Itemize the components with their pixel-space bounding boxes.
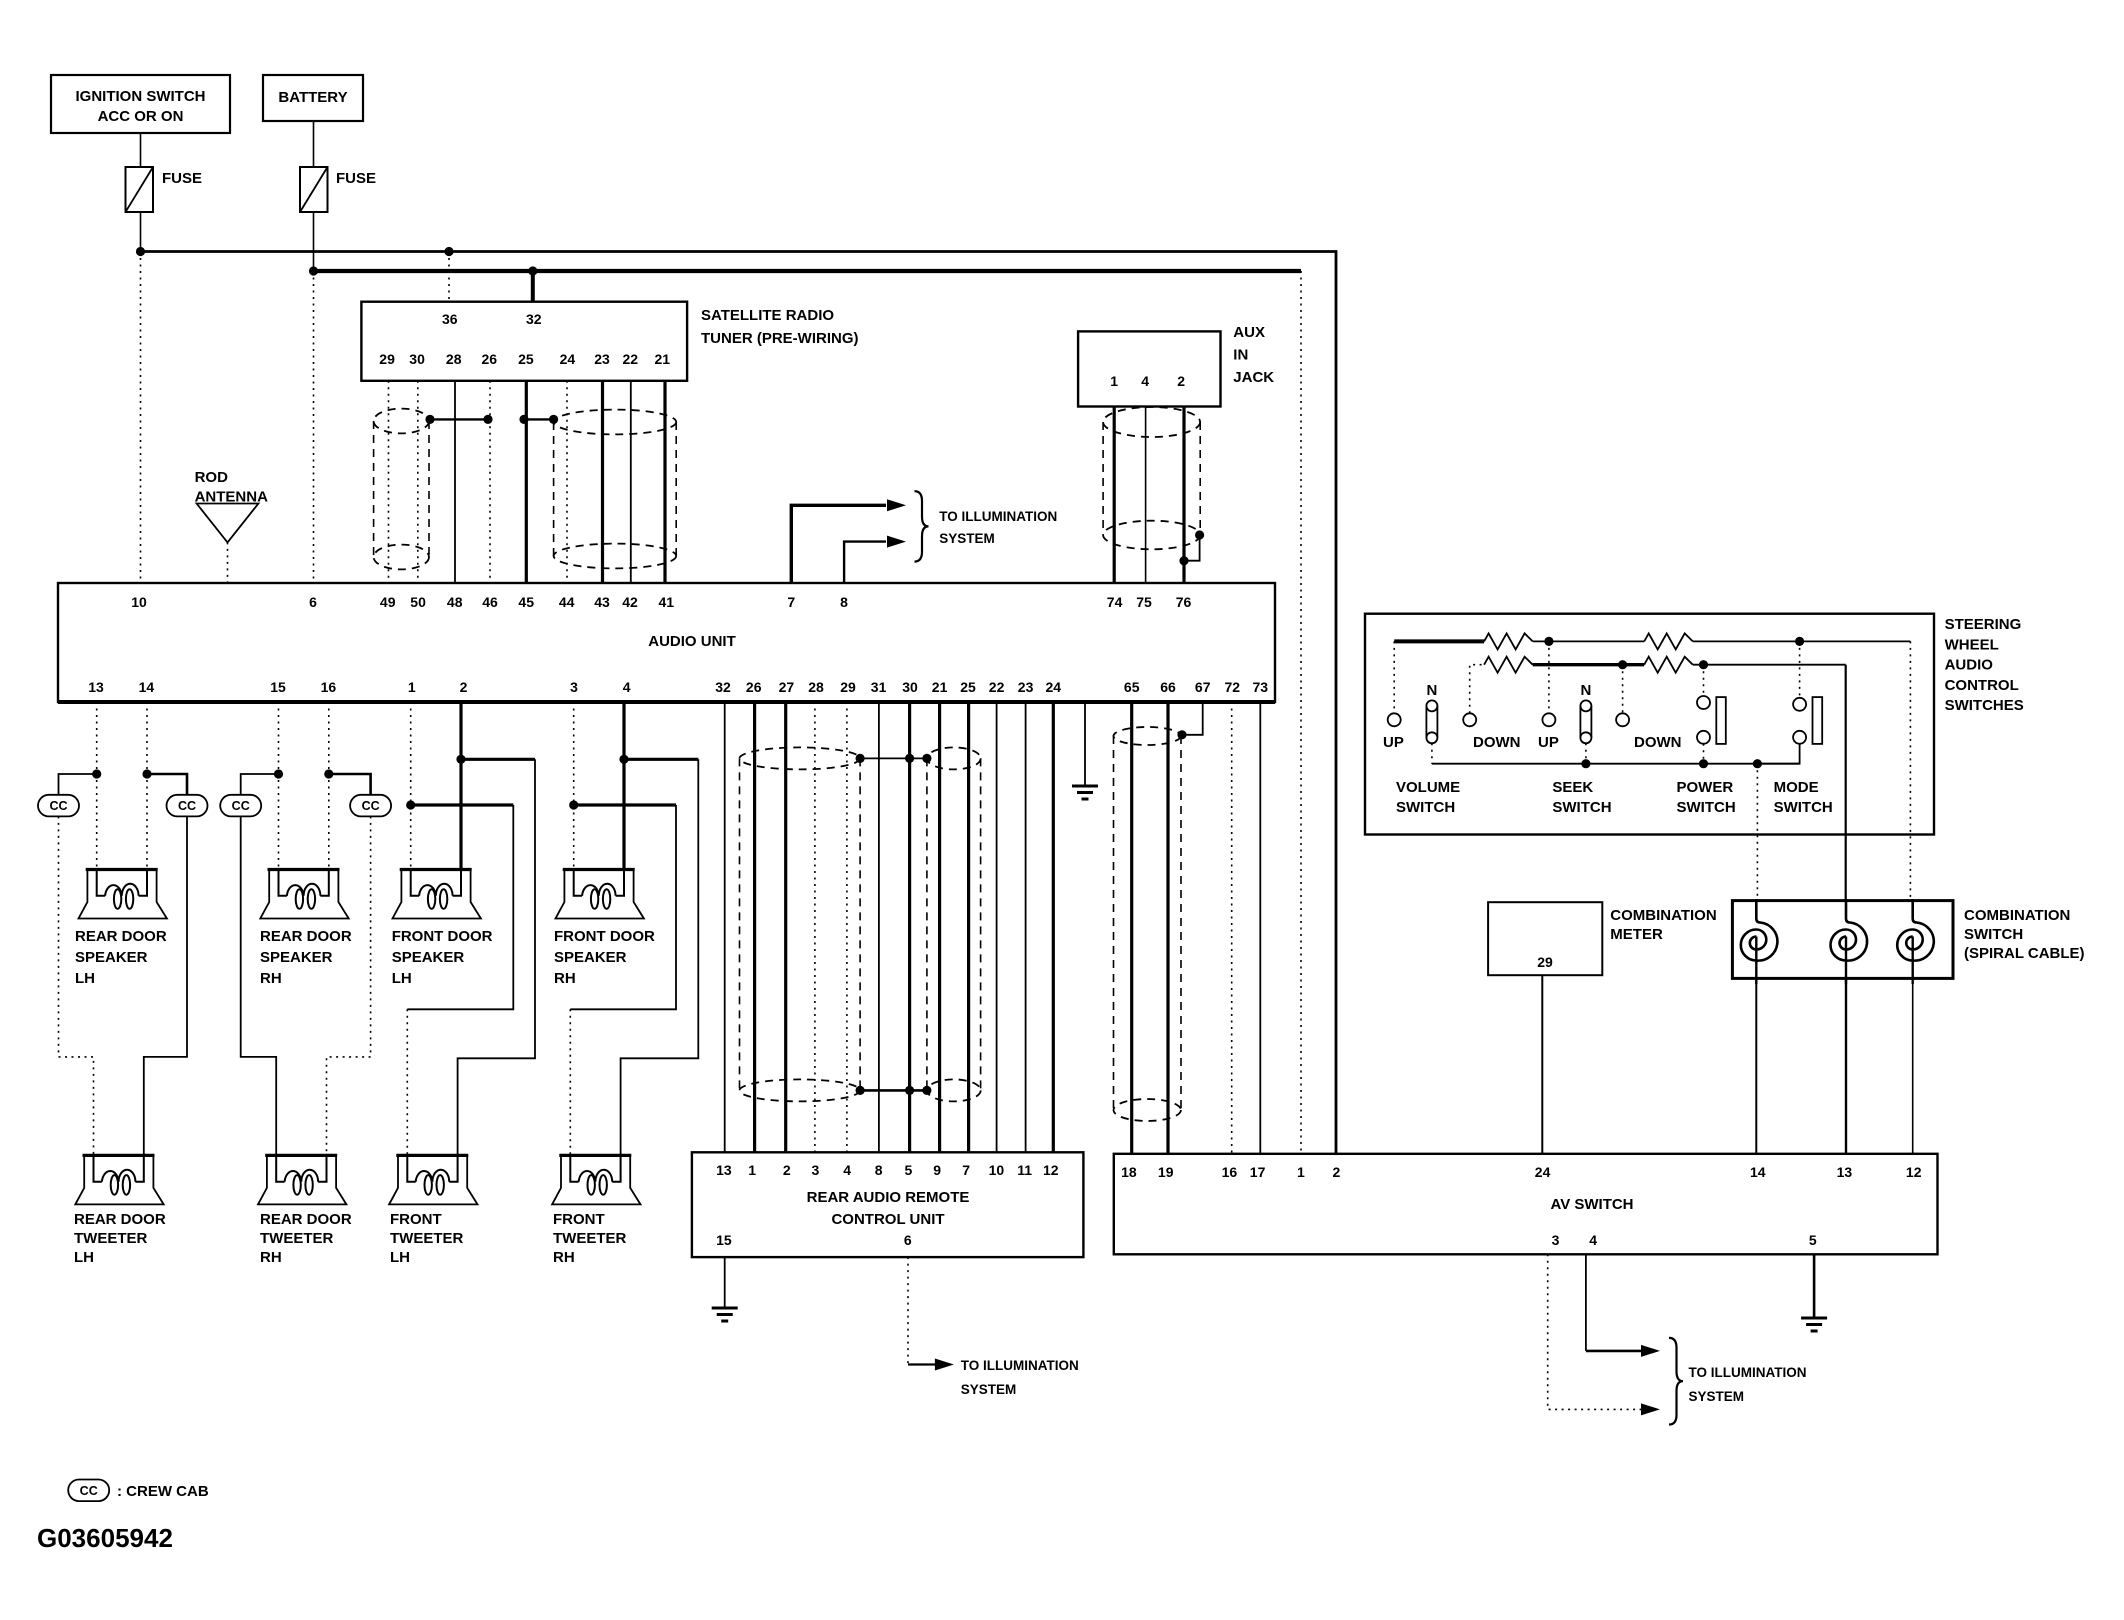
svg-text:5: 5 — [905, 1162, 913, 1178]
wire: power riser — [1703, 665, 1705, 696]
CC option oval (rear LH -) — [167, 795, 208, 817]
wire: seek UP riser — [1548, 641, 1550, 713]
svg-text:11: 11 — [1017, 1162, 1032, 1178]
spiral cable coil 1 — [1741, 899, 1778, 984]
svg-text:24: 24 — [1535, 1164, 1551, 1180]
junction: power on common bus — [1699, 759, 1708, 768]
svg-text:49: 49 — [380, 594, 396, 610]
svg-text:TWEETER: TWEETER — [390, 1230, 463, 1247]
wire: seek DOWN riser — [1622, 665, 1624, 714]
svg-text:RH: RH — [554, 970, 576, 987]
wire: power bottom to bus — [1703, 744, 1705, 764]
wire: tuner 21 to audio 41 (thick) — [663, 381, 666, 583]
power switch top contact — [1697, 696, 1710, 709]
junction: row1 to seek UP — [1544, 637, 1553, 646]
wire: spiral 1 to AV 14 — [1755, 977, 1757, 1154]
svg-text:MODE: MODE — [1774, 779, 1819, 796]
wire: audio 31 to remote 8 — [878, 702, 880, 1152]
mode switch bottom contact — [1793, 731, 1806, 744]
svg-text:75: 75 — [1136, 594, 1152, 610]
rear audio remote control unit box — [692, 1152, 1084, 1257]
junction: aux shield drain — [1195, 530, 1204, 539]
wire: ignition switch to fuse F1 — [140, 133, 142, 167]
shield cylinder: AV lines 18/19 — [1114, 727, 1182, 1121]
wire: tap to CC oval (left) — [59, 774, 97, 795]
svg-text:21: 21 — [655, 351, 671, 367]
volume switch DOWN contact — [1463, 713, 1476, 726]
junction: row2 to power — [1699, 660, 1708, 669]
svg-text:SATELLITE RADIO: SATELLITE RADIO — [701, 307, 834, 324]
svg-text:TWEETER: TWEETER — [553, 1230, 626, 1247]
wire: audio 22 to remote 10 — [996, 702, 998, 1152]
svg-text:LH: LH — [392, 970, 412, 987]
svg-text:FRONT: FRONT — [553, 1211, 605, 1228]
remote top pin labels — [716, 1162, 1059, 1178]
svg-text:3: 3 — [812, 1162, 820, 1178]
label: rod antenna — [195, 469, 268, 506]
steering wheel audio control switches box — [1365, 614, 1934, 835]
ground: remote control unit — [712, 1308, 738, 1321]
svg-text:2: 2 — [460, 679, 468, 695]
label: aux in jack — [1233, 324, 1274, 386]
audio unit bottom pin labels — [88, 679, 1268, 695]
svg-text:18: 18 — [1121, 1164, 1137, 1180]
svg-text:27: 27 — [779, 679, 795, 695]
svg-text:SYSTEM: SYSTEM — [961, 1382, 1017, 1397]
svg-text:ROD: ROD — [195, 469, 229, 486]
svg-text:N: N — [1580, 682, 1591, 699]
volume switch N slider — [1426, 700, 1437, 743]
svg-text:46: 46 — [482, 594, 498, 610]
wire: audio 23 to remote 11 — [1025, 702, 1027, 1152]
wire: shield drains to wire 30 (top) — [860, 757, 927, 759]
wire: CC to rear tweeter LH - — [144, 816, 187, 1155]
battery source box — [263, 75, 363, 121]
svg-text:72: 72 — [1225, 679, 1241, 695]
junction: wire30 bottom — [905, 1086, 914, 1095]
junction: pin1 tweeter tap — [406, 800, 415, 809]
wire: tuner 28 to audio 48 — [454, 381, 456, 583]
svg-text:28: 28 — [808, 679, 824, 695]
label: power switch — [1677, 779, 1736, 816]
wire: audio 14 to rear door speaker LH - — [146, 702, 148, 870]
svg-text:28: 28 — [446, 351, 462, 367]
wire: audio pin 7 to illumination (thick) — [791, 505, 886, 583]
junction: row1 to mode — [1795, 637, 1804, 646]
svg-text:29: 29 — [840, 679, 856, 695]
wire: tuner 30 to audio 50 — [417, 381, 419, 583]
wire: mode riser — [1799, 641, 1801, 697]
wire: aux 4 to audio 75 — [1145, 407, 1147, 584]
svg-text:DOWN: DOWN — [1634, 734, 1682, 751]
resistor R4 (seek down) — [1644, 657, 1693, 673]
wire: audio 27 to remote 2 (thick) — [784, 702, 787, 1152]
AV top pin labels — [1121, 1164, 1922, 1180]
svg-text:AUDIO UNIT: AUDIO UNIT — [648, 633, 736, 650]
svg-text:4: 4 — [623, 679, 631, 695]
svg-text:CONTROL UNIT: CONTROL UNIT — [831, 1211, 944, 1228]
svg-text:10: 10 — [131, 594, 147, 610]
svg-text:3: 3 — [570, 679, 578, 695]
wire: audio 16 to rear door speaker RH - — [328, 702, 330, 870]
wire: audio 25 to remote 7 (thick) — [967, 702, 970, 1152]
legend: CC = crew cab — [68, 1480, 209, 1502]
audio unit box — [58, 583, 1275, 702]
svg-text:N: N — [1426, 682, 1437, 699]
svg-text:TO ILLUMINATION: TO ILLUMINATION — [939, 509, 1057, 524]
junction: shield 1 drain on wire 26 — [483, 415, 492, 424]
svg-text:2: 2 — [1333, 1164, 1341, 1180]
svg-text:29: 29 — [1537, 954, 1553, 970]
CC option oval (rear RH +) — [220, 795, 261, 817]
CC option oval (rear LH +) — [38, 795, 79, 817]
svg-text:REAR DOOR: REAR DOOR — [260, 928, 352, 945]
svg-text:26: 26 — [482, 351, 498, 367]
wire: audio 32 to remote 13 — [724, 702, 726, 1152]
svg-text:13: 13 — [1837, 1164, 1853, 1180]
junction: pin14 tweeter tap — [142, 769, 151, 778]
svg-text:AUDIO: AUDIO — [1945, 657, 1994, 674]
wire: CC to rear tweeter RH + — [241, 816, 277, 1155]
wire: battery to fuse F2 — [313, 121, 315, 167]
wire: audio 67 to shield drain — [1183, 702, 1203, 735]
front tweeter RH symbol — [552, 1155, 640, 1204]
wire: AV 4 to illumination — [1585, 1254, 1587, 1351]
svg-text:ANTENNA: ANTENNA — [195, 489, 268, 506]
junction: pin13 tweeter tap — [92, 769, 101, 778]
junction: row2 to seek DOWN — [1618, 660, 1627, 669]
svg-text:TWEETER: TWEETER — [74, 1230, 147, 1247]
svg-text:FRONT DOOR: FRONT DOOR — [392, 928, 493, 945]
wire: aux shield drain to wire 76 — [1184, 535, 1200, 561]
svg-text:4: 4 — [1589, 1232, 1597, 1248]
wire: CC to rear tweeter LH + — [59, 816, 94, 1155]
front tweeter LH symbol — [389, 1155, 477, 1204]
shield cylinder: tuner pins 24/23/22/21 — [554, 410, 677, 569]
svg-text:BATTERY: BATTERY — [278, 89, 347, 106]
svg-text:19: 19 — [1158, 1164, 1174, 1180]
junction: seek on common bus — [1581, 759, 1590, 768]
wire: tuner 25 to audio 45 (thick) — [525, 381, 528, 583]
junction: wire 25 shield tap — [519, 415, 528, 424]
svg-text:UP: UP — [1538, 734, 1559, 751]
svg-text:13: 13 — [88, 679, 104, 695]
svg-text:LH: LH — [390, 1249, 410, 1266]
arrow: pin 7 illumination — [887, 499, 906, 511]
arrow: AV 4 illumination — [1641, 1345, 1660, 1357]
svg-text:14: 14 — [1750, 1164, 1766, 1180]
svg-text:SEEK: SEEK — [1552, 779, 1593, 796]
seek switch N slider — [1580, 700, 1591, 743]
wire: row2 right — [1693, 664, 1846, 666]
AV switch box — [1114, 1154, 1938, 1255]
power switch bottom contact — [1697, 731, 1710, 744]
svg-text:74: 74 — [1107, 594, 1123, 610]
svg-text:31: 31 — [871, 679, 887, 695]
svg-text:7: 7 — [962, 1162, 970, 1178]
svg-text:6: 6 — [309, 594, 317, 610]
wire: audio pin 8 to illumination — [844, 542, 886, 583]
junction: pin2 tweeter tap — [456, 755, 465, 764]
svg-text:45: 45 — [518, 594, 534, 610]
fuse F2 (battery) — [300, 167, 376, 212]
combination switch (spiral cable) box — [1732, 901, 1953, 979]
rod antenna symbol — [197, 504, 259, 584]
junction: shield2 top — [922, 754, 931, 763]
svg-text:SPEAKER: SPEAKER — [554, 949, 627, 966]
svg-text:26: 26 — [746, 679, 762, 695]
junction: shield2 bottom — [922, 1086, 931, 1095]
label: to illumination system (AV) — [1689, 1365, 1807, 1404]
label: steering wheel audio control switches — [1945, 616, 2024, 714]
svg-text:G03605942: G03605942 — [37, 1523, 173, 1553]
svg-text:21: 21 — [932, 679, 948, 695]
wire: tuner 22 to audio 42 — [630, 381, 632, 583]
wire: seek N to bottom bus — [1585, 743, 1587, 763]
svg-text:TO ILLUMINATION: TO ILLUMINATION — [961, 1358, 1079, 1373]
label: front door speaker RH — [554, 928, 655, 987]
svg-text:WHEEL: WHEEL — [1945, 636, 1999, 653]
label: to illumination system (top) — [939, 509, 1057, 546]
svg-text:43: 43 — [594, 594, 610, 610]
wire: spiral 2 to AV 13 — [1845, 977, 1847, 1154]
wire: audio 28 to remote 3 — [814, 702, 816, 1152]
wire: common bus down to combination switch 14 — [1756, 764, 1758, 901]
svg-text:30: 30 — [409, 351, 425, 367]
wire: aux 1 to audio 74 (thick) — [1113, 407, 1116, 584]
svg-text:DOWN: DOWN — [1473, 734, 1521, 751]
wire: mode bottom to bus — [1757, 744, 1799, 764]
wire: BAT bus to satellite tuner pin 32 (thick) — [531, 271, 535, 302]
svg-text:12: 12 — [1906, 1164, 1922, 1180]
svg-text:32: 32 — [526, 311, 542, 327]
wire: audio 21 to remote 9 (thick) — [938, 702, 941, 1152]
resistor R3 (volume down) — [1484, 657, 1533, 673]
svg-text:IGNITION SWITCH: IGNITION SWITCH — [76, 88, 206, 105]
svg-text:FRONT: FRONT — [390, 1211, 442, 1228]
wire: audio 66 to AV 19 (thick) — [1166, 702, 1169, 1154]
label: volume switch — [1396, 779, 1460, 816]
svg-text:25: 25 — [518, 351, 534, 367]
junction: BAT bus to tuner pin 32 — [528, 266, 537, 275]
svg-text:23: 23 — [1018, 679, 1034, 695]
satellite radio tuner (pre-wiring) box — [361, 302, 687, 381]
svg-text:REAR DOOR: REAR DOOR — [260, 1211, 352, 1228]
seek switch UP contact — [1542, 713, 1555, 726]
svg-text:8: 8 — [840, 594, 848, 610]
svg-text:ACC OR ON: ACC OR ON — [98, 108, 184, 125]
svg-text:RH: RH — [260, 1249, 282, 1266]
junction: tuner shield 1 drain — [425, 415, 434, 424]
junction: 67 on shield — [1177, 730, 1186, 739]
wire: audio 2 to front door speaker LH - (thick) — [459, 702, 462, 870]
svg-text:FUSE: FUSE — [336, 170, 376, 187]
ground: audio unit — [1072, 786, 1098, 799]
svg-text:SWITCH: SWITCH — [1396, 799, 1455, 816]
wire: ACC bus to satellite tuner pin 36 — [448, 252, 450, 302]
CC option oval (rear RH -) — [350, 795, 391, 817]
shield cylinder: aux cable — [1103, 407, 1200, 549]
svg-text:2: 2 — [1177, 373, 1185, 389]
wire: pin1 tap to front tweeter LH + — [411, 803, 514, 806]
brace: AV illumination group — [1669, 1338, 1683, 1425]
ground: AV switch — [1801, 1318, 1827, 1331]
svg-text:SWITCHES: SWITCHES — [1945, 697, 2024, 714]
wire: aux 2 to audio 76 (thick) — [1182, 407, 1185, 584]
svg-text:1: 1 — [408, 679, 416, 695]
svg-text:2: 2 — [783, 1162, 791, 1178]
wire: wire 25 to shield 2 — [524, 418, 554, 420]
junction: aux shield on wire 76 — [1179, 556, 1188, 565]
wire: ACC bus down to audio unit pin 10 — [140, 252, 142, 584]
svg-text:COMBINATION: COMBINATION — [1964, 907, 2070, 924]
svg-text:16: 16 — [1222, 1164, 1238, 1180]
svg-text:10: 10 — [989, 1162, 1005, 1178]
svg-text:SWITCH: SWITCH — [1774, 799, 1833, 816]
wire: tap to CC oval (right) — [147, 774, 187, 795]
wire: tuner 24 to audio 44 — [566, 381, 568, 583]
svg-text:29: 29 — [379, 351, 395, 367]
junction: BAT bus at fuse F2 — [309, 266, 318, 275]
label: combination switch (spiral cable) — [1964, 907, 2085, 962]
label: rear door tweeter RH — [260, 1211, 352, 1266]
wire: remote 6 to illumination — [907, 1257, 909, 1364]
svg-text:50: 50 — [410, 594, 426, 610]
power switch actuator bar — [1716, 697, 1726, 744]
shield cylinder: tuner pins 29/30 — [374, 409, 429, 570]
shield cylinder: remote control lines 9/7 — [927, 747, 981, 1101]
mode switch actuator bar — [1813, 697, 1823, 744]
svg-text:SPEAKER: SPEAKER — [392, 949, 465, 966]
wire: AV 3 to illumination — [1548, 1254, 1641, 1409]
mode switch top contact — [1793, 698, 1806, 711]
svg-text:6: 6 — [904, 1232, 912, 1248]
svg-text:SYSTEM: SYSTEM — [1689, 1389, 1745, 1404]
arrow: pin 8 illumination — [887, 536, 906, 548]
svg-text:STEERING: STEERING — [1945, 616, 2022, 633]
wire: row1 mid — [1533, 640, 1645, 642]
svg-text:42: 42 — [622, 594, 638, 610]
svg-text:FRONT DOOR: FRONT DOOR — [554, 928, 655, 945]
wire: audio 26 to remote 1 (thick) — [753, 702, 756, 1152]
svg-text:RH: RH — [260, 970, 282, 987]
junction: shield1 top — [856, 754, 865, 763]
svg-text:SPEAKER: SPEAKER — [75, 949, 148, 966]
arrow: AV 3 illumination — [1641, 1403, 1660, 1415]
wire: shield drains to wire 30 (bottom) — [860, 1089, 927, 1092]
svg-text:UP: UP — [1383, 734, 1404, 751]
svg-text:REAR AUDIO REMOTE: REAR AUDIO REMOTE — [807, 1189, 970, 1206]
wire: meter 29 to AV 24 — [1541, 975, 1543, 1154]
front door speaker RH symbol — [556, 870, 644, 919]
svg-text:16: 16 — [321, 679, 337, 695]
svg-text:POWER: POWER — [1677, 779, 1734, 796]
wire: audio 13 to rear door speaker LH + — [96, 702, 98, 870]
svg-text:VOLUME: VOLUME — [1396, 779, 1460, 796]
label: rear door speaker RH — [260, 928, 352, 987]
wire: BAT bus down to audio unit pin 6 — [313, 271, 315, 583]
svg-text:AV SWITCH: AV SWITCH — [1550, 1196, 1633, 1213]
wire: audio 24 to remote 12 (thick) — [1052, 702, 1055, 1152]
svg-text:: CREW CAB: : CREW CAB — [117, 1483, 209, 1500]
shield cylinder: remote control lines 1-4 — [740, 747, 861, 1101]
label: to illumination system (remote) — [961, 1358, 1079, 1397]
combination meter box — [1488, 902, 1602, 975]
volume switch UP contact — [1388, 713, 1401, 726]
junction: common bus output — [1753, 759, 1762, 768]
svg-text:48: 48 — [447, 594, 463, 610]
svg-text:41: 41 — [659, 594, 675, 610]
wire: row1 left (thick) — [1394, 639, 1484, 643]
seek switch DOWN contact — [1616, 713, 1629, 726]
wire: tap to CC oval (left) — [241, 774, 279, 795]
junction: ACC bus to tuner pin 36 — [444, 247, 453, 256]
svg-text:22: 22 — [623, 351, 639, 367]
junction: pin3 tweeter tap — [569, 800, 578, 809]
junction: wire30 top — [905, 754, 914, 763]
svg-text:SYSTEM: SYSTEM — [939, 531, 995, 546]
svg-text:TUNER (PRE-WIRING): TUNER (PRE-WIRING) — [701, 330, 859, 347]
svg-text:25: 25 — [960, 679, 976, 695]
svg-text:5: 5 — [1809, 1232, 1817, 1248]
AV bottom pin labels — [1552, 1232, 1817, 1248]
wire: audio 73 to AV 17 — [1259, 702, 1261, 1154]
svg-text:9: 9 — [933, 1162, 941, 1178]
BAT bus wire (thick) — [314, 269, 1302, 273]
svg-text:66: 66 — [1160, 679, 1176, 695]
wire: AV 5 to ground — [1813, 1254, 1816, 1318]
svg-text:1: 1 — [1110, 373, 1118, 389]
wire: row2 down to combination switch 13 — [1845, 665, 1847, 901]
ignition switch source box — [51, 75, 230, 133]
svg-text:22: 22 — [989, 679, 1005, 695]
audio unit top pin labels — [131, 594, 1191, 610]
wire: audio 3 to front door speaker RH + — [573, 702, 575, 870]
aux pin labels 1 4 2 — [1110, 373, 1185, 389]
label: rear audio remote control unit — [807, 1189, 970, 1228]
wire: audio 1 to front door speaker LH + — [410, 702, 412, 870]
rear door speaker LH symbol — [79, 870, 167, 919]
svg-text:7: 7 — [787, 594, 795, 610]
wire: tuner 23 to audio 43 (thick) — [601, 381, 604, 583]
wire: audio 15 to rear door speaker RH + — [278, 702, 280, 870]
wire: audio unit case ground — [1084, 702, 1086, 786]
rear door tweeter LH symbol — [75, 1155, 163, 1204]
svg-text:TWEETER: TWEETER — [260, 1230, 333, 1247]
fuse F1 (ignition ACC) — [126, 167, 203, 212]
junction: pin4 tweeter tap — [619, 755, 628, 764]
svg-text:FUSE: FUSE — [162, 170, 202, 187]
label: satellite radio tuner — [701, 307, 859, 347]
svg-text:44: 44 — [559, 594, 575, 610]
svg-text:4: 4 — [843, 1162, 851, 1178]
svg-text:IN: IN — [1233, 347, 1248, 364]
wire: switch common bus — [1432, 763, 1800, 765]
svg-text:SPEAKER: SPEAKER — [260, 949, 333, 966]
svg-text:14: 14 — [139, 679, 155, 695]
svg-text:METER: METER — [1610, 926, 1663, 943]
svg-text:1: 1 — [748, 1162, 756, 1178]
svg-text:JACK: JACK — [1233, 369, 1274, 386]
wire: audio 30 to remote 5 (thick) — [908, 702, 911, 1152]
svg-text:24: 24 — [560, 351, 576, 367]
wire: volume UP riser — [1393, 641, 1395, 713]
wire: remote 15 to ground — [724, 1257, 726, 1308]
svg-text:73: 73 — [1253, 679, 1269, 695]
label: rear door speaker LH — [75, 928, 167, 987]
front door speaker LH symbol — [393, 870, 481, 919]
svg-text:30: 30 — [902, 679, 918, 695]
